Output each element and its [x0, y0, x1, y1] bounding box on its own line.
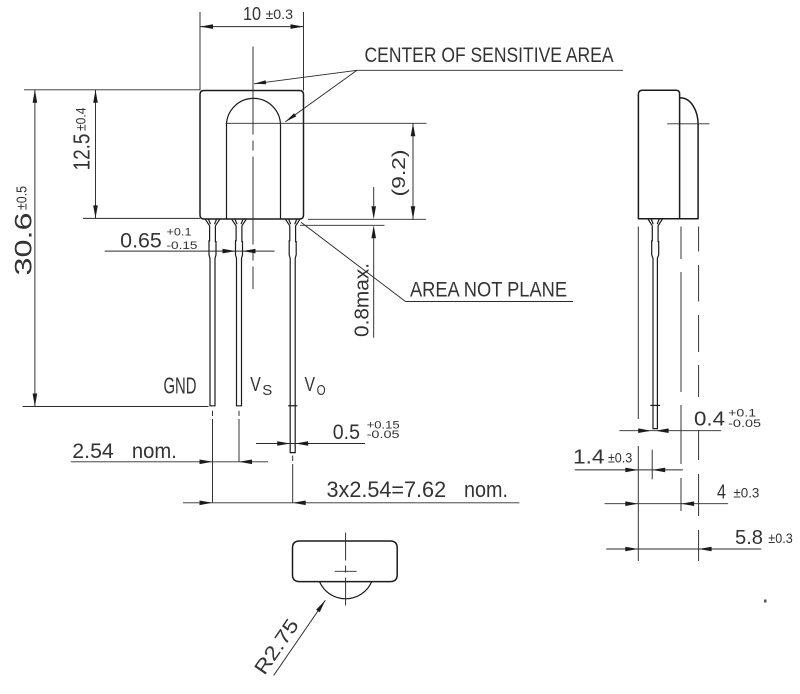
svg-text:CENTER OF SENSITIVE AREA: CENTER OF SENSITIVE AREA: [365, 44, 614, 67]
svg-text:nom.: nom.: [132, 440, 177, 463]
svg-text:±0.5: ±0.5: [15, 186, 31, 210]
svg-text:AREA NOT PLANE: AREA NOT PLANE: [410, 279, 567, 302]
svg-text:±0.3: ±0.3: [608, 449, 633, 465]
svg-text:-0.05: -0.05: [728, 418, 761, 430]
svg-text:10: 10: [243, 4, 261, 24]
svg-text:nom.: nom.: [464, 477, 508, 502]
svg-text:V: V: [305, 374, 316, 396]
svg-text:(9.2): (9.2): [389, 150, 409, 197]
svg-text:V: V: [250, 374, 261, 396]
svg-text:GND: GND: [164, 373, 197, 399]
svg-text:0.65: 0.65: [120, 230, 162, 253]
svg-text:O: O: [317, 382, 326, 399]
svg-text:1.4: 1.4: [573, 447, 605, 469]
svg-text:-0.05: -0.05: [367, 429, 400, 441]
svg-text:12.5: 12.5: [68, 134, 94, 171]
svg-text:30.6: 30.6: [11, 213, 38, 276]
svg-text:0.8max.: 0.8max.: [352, 263, 374, 337]
svg-text:4: 4: [717, 482, 726, 504]
svg-text:±0.3: ±0.3: [266, 7, 294, 22]
svg-text:5.8: 5.8: [735, 527, 763, 549]
svg-text:±0.3: ±0.3: [768, 530, 793, 546]
svg-text:0.5: 0.5: [333, 421, 360, 444]
svg-text:±0.4: ±0.4: [72, 107, 88, 131]
svg-text:3x2.54=7.62: 3x2.54=7.62: [327, 477, 447, 502]
svg-text:+0.1: +0.1: [167, 227, 192, 239]
svg-text:0.4: 0.4: [694, 408, 725, 430]
svg-text:-0.15: -0.15: [167, 240, 198, 252]
svg-text:±0.3: ±0.3: [733, 484, 759, 500]
svg-text:S: S: [262, 382, 272, 399]
svg-text:2.54: 2.54: [72, 440, 114, 463]
